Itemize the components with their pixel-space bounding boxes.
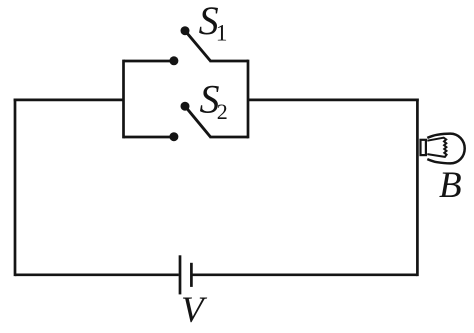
- lamp B socket rectangle: [421, 140, 426, 155]
- lamp B glass envelope (circle with neck): [427, 134, 464, 164]
- svg-text:1: 1: [216, 21, 228, 47]
- battery V short plate: [190, 263, 193, 287]
- switch S1 left contact dot: [169, 56, 178, 65]
- wire: top left horizontal (battery loop to switch junction node): [14, 99, 124, 102]
- wire: S2 branch right segment (from S2 arm): [210, 136, 249, 139]
- battery V long plate: [179, 255, 182, 294]
- wire: outer loop left vertical: [14, 99, 17, 277]
- wire: switch box right vertical (node rejoining S1/S2): [247, 60, 250, 139]
- lamp B filament fan with jagged edge: [427, 138, 446, 157]
- wire: top right horizontal (switch junction node to lamp branch): [248, 99, 419, 102]
- svg-text:B: B: [439, 165, 462, 206]
- wire: outer loop right vertical (through lamp B): [416, 99, 419, 277]
- wire: bottom horizontal, right of battery V: [193, 273, 418, 276]
- switch S2 pivot dot (free end): [181, 102, 190, 111]
- wire: switch box left vertical (node splitting to S1/S2): [122, 60, 125, 139]
- wire: S1 branch right segment (from S1 arm): [210, 60, 249, 63]
- wire: S1 branch left segment (to S1 left contact): [124, 60, 175, 63]
- switch S2 left contact dot: [169, 132, 178, 141]
- svg-text:V: V: [181, 290, 208, 331]
- switch S2 arm: [185, 106, 211, 137]
- wire: bottom horizontal, left of battery V: [15, 273, 179, 276]
- switch S1 arm: [185, 31, 211, 61]
- switch S1 pivot dot (free end): [181, 26, 190, 35]
- wire: S2 branch left segment (to S2 left contact): [124, 136, 175, 139]
- svg-text:2: 2: [217, 99, 228, 124]
